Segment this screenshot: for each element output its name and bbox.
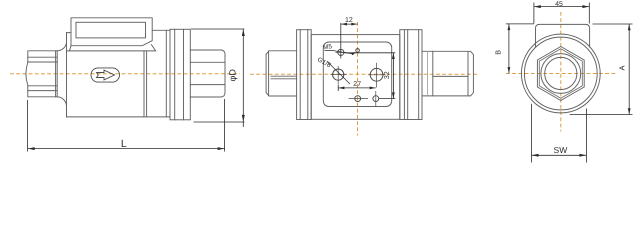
handle plate inner [76,22,146,38]
phiD top extension line [191,28,244,30]
phiD bottom extension line [194,121,245,123]
27 dimension line [338,87,376,89]
svg-text:φD: φD [228,69,238,82]
phiD top arrow [242,29,245,36]
right nipple ring vertical [432,51,434,96]
right view part outlines [521,24,600,113]
dimension A [570,24,633,115]
svg-text:L: L [121,138,127,150]
SW left extension [531,104,533,163]
outer circle [521,34,600,113]
inner circle thread [541,54,581,94]
A top extension [593,23,633,25]
svg-text:A: A [617,65,626,70]
A bottom extension [570,114,633,116]
handle plate outer [71,18,152,46]
right collar chamfer lines [403,30,405,120]
12 dimension line [341,23,358,25]
middle view part outlines [266,30,473,120]
32 dimension line [392,53,394,99]
svg-text:27: 27 [353,81,361,88]
svg-text:SW: SW [554,145,568,155]
handle pedestal [67,45,156,51]
hose barb stem left [26,51,57,97]
left threaded nipple outline with chamfered end [266,51,297,96]
hole M5 [338,49,344,55]
svg-text:12: 12 [345,17,353,24]
SW right extension [585,109,587,163]
right plug nipple [190,50,225,97]
stem end vertical pair [55,51,57,97]
holes on face [333,49,383,102]
hole small top center [356,49,360,53]
centerline left view [10,73,240,75]
square body plate (top portion visible) [536,24,590,47]
dimension 32 [345,53,396,99]
L left arrow [28,147,35,150]
svg-text:32: 32 [384,71,391,79]
dimension L [28,99,225,152]
L dimension line [28,148,225,150]
body right ring line [165,30,167,117]
right threaded nipple outline with chamfered end [422,51,473,96]
hex nut chamfer inner [539,49,582,99]
32 top extension from M5 [345,52,396,54]
M5 leader with arrow [325,51,354,55]
A dimension line [628,24,630,115]
body ring double line [143,51,145,117]
back flange [311,35,400,120]
hole small bottom center [355,96,361,102]
nipple groove lines [190,61,225,63]
centerline middle vertical [357,22,359,136]
dimension 45 [534,3,589,24]
dimension 27 [338,85,376,92]
flow arrow logo on body [91,68,120,82]
hex nut outer [537,47,584,101]
right collar [400,30,422,120]
fillet stem to body bottom [57,97,66,117]
12 left extension (M5 axis) [340,23,342,58]
svg-text:M5: M5 [323,43,333,51]
left nipple chamfer vertical [268,51,270,95]
collar nut [170,29,190,120]
right nipple thread relief light line [427,51,429,96]
B dimension line [508,24,510,73]
fillet stem to body top [57,33,66,51]
svg-text:45: 45 [555,1,563,8]
right nipple bore line [433,75,468,77]
body left face edge [66,33,68,117]
hole G1/8 large left [333,69,344,80]
hole large right [370,68,383,81]
dimension SW [532,104,587,163]
left view part outlines [26,18,225,120]
barb ring lines [28,56,57,58]
centerline middle horizontal [250,22,477,136]
left collar [297,30,312,120]
32 bottom extension [379,98,395,100]
face plate [323,42,391,107]
phiD bottom arrow [242,115,245,122]
centerline right horizontal [506,12,616,132]
svg-text:G1/8: G1/8 [316,56,332,69]
G1/8 leader [327,61,350,84]
chamfer ring circle [524,37,597,110]
L right extension line [224,99,226,152]
logo capsule [91,68,120,82]
left nipple bore lines [271,75,297,77]
right nipple chamfer vertical [467,52,469,96]
body top and bottom edges [67,30,171,117]
centerline right vertical [560,12,562,132]
hole small bottom right [373,96,379,102]
SW dimension line [532,154,587,156]
hole crosshairs [331,52,386,106]
phiD dimension line [242,29,244,127]
dimension B [506,24,534,73]
27 left extension [337,85,339,92]
svg-text:B: B [493,50,502,55]
B top extension [506,23,534,25]
L left extension line [27,100,29,152]
L right arrow [218,147,225,150]
collar chamfer lines [174,29,176,120]
dimension 12 [341,23,358,58]
left collar chamfer lines [299,30,301,120]
bore circle [545,57,577,89]
logo arrow [97,70,115,80]
dimension phiD [191,29,244,127]
